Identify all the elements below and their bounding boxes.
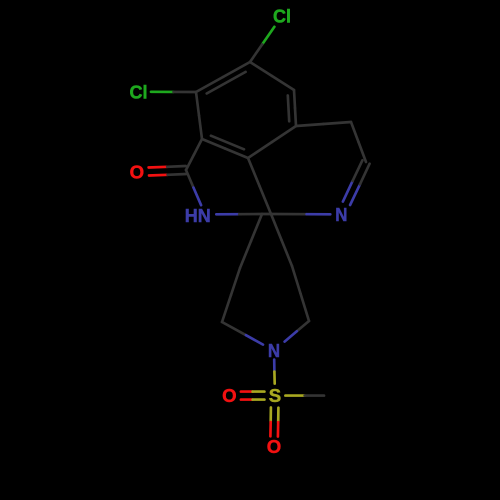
bond C3-C2 ring left lower — [222, 268, 240, 322]
bond C6-N3 — [285, 321, 309, 342]
svg-text:N: N — [335, 204, 347, 225]
sym double bond S=O2 — [241, 392, 265, 400]
bond C(spiro)-N2 horizontal — [262, 213, 330, 216]
bond C1-N(H) amide — [186, 170, 201, 205]
svg-text:O: O — [222, 385, 236, 406]
svg-text:Cl: Cl — [130, 81, 148, 102]
svg-text:HN: HN — [185, 205, 211, 226]
svg-text:N: N — [268, 340, 280, 361]
sym double bond N2=CH imine — [343, 160, 370, 205]
bond C8a-C4b?? aromatic edge C-D — [202, 139, 248, 158]
bond CH2(G)-aromatic E — [296, 122, 351, 126]
aromatic inner line C=D — [211, 136, 244, 150]
bond ring C-C1 carbonyl — [186, 139, 202, 170]
sym double bond S=O3 — [270, 408, 278, 437]
bond Cl2-ring (green half) — [151, 90, 196, 93]
bond aromatic D - C(spiro) — [248, 158, 271, 214]
bond C8-C8a aromatic edge B-C — [196, 92, 202, 139]
bond C2-N3 — [222, 322, 263, 345]
aromatic inner line A=B — [207, 72, 246, 94]
bond C7(Cl)-C8(Cl) aromatic edge A-B — [196, 62, 250, 92]
bond aromatic edge D-E — [248, 126, 296, 158]
bond Cl1-ring (green half) — [250, 27, 274, 62]
bond C5-C6 ring right lower — [292, 266, 309, 321]
aromatic inner line E=F — [288, 95, 289, 121]
bond N3-S — [273, 360, 276, 384]
bond CH-CH2(G) — [351, 122, 366, 162]
svg-text:O: O — [267, 436, 281, 457]
bond spiro-C5 ring right upper — [271, 214, 292, 266]
bond S-CH3 — [285, 394, 324, 397]
svg-text:S: S — [269, 385, 281, 406]
bond aromatic edge F-A — [250, 62, 294, 90]
bond aromatic edge E-F — [294, 90, 296, 126]
bond N(H)-C(spiro) horizontal — [216, 213, 262, 216]
svg-text:O: O — [130, 162, 144, 183]
sym double bond C1=O1 — [149, 166, 187, 176]
bond spiro-C3 ring left upper — [240, 214, 262, 268]
svg-text:Cl: Cl — [273, 5, 291, 26]
